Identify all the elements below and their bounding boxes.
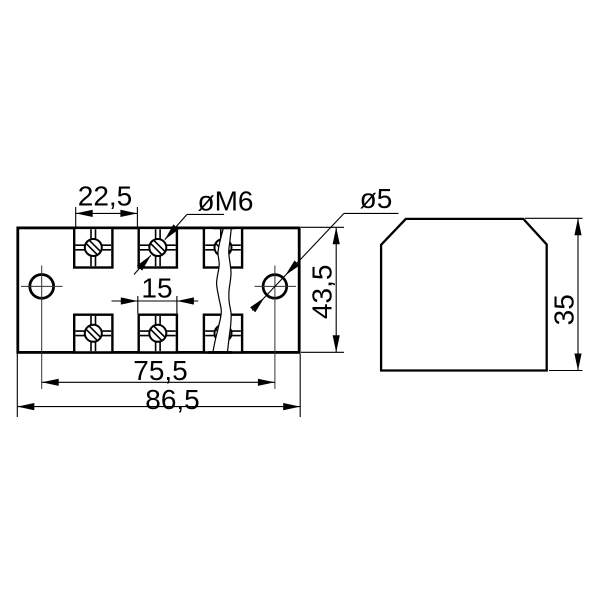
dimension 15 label [141,272,172,303]
left hole centerlines [21,266,63,390]
dimension 43,5 extension lines [301,227,344,352]
dimension 35 line and arrows [574,218,581,370]
break line right [227,229,231,353]
terminal screw A2 (bottom row) [74,315,112,353]
svg-text:43,5: 43,5 [306,265,337,320]
dimension 15 line and arrows [112,297,199,304]
side view outline [381,219,547,371]
dimension 22,5 line and arrows [76,210,138,217]
svg-text:ø5: ø5 [360,183,393,214]
front view body outline [18,228,299,353]
dimension 22,5 extension lines [76,207,138,227]
terminal screw C1 (top row) [204,228,242,268]
right mounting hole [263,275,287,299]
terminal screw C2 (bottom row) [204,315,242,353]
dimension 15 extension lines [138,296,177,313]
dimension 86,5 label [145,384,200,415]
body top edge over band [213,226,235,229]
dimension 22,5 label [78,180,133,211]
terminal screw B1 (top row) [139,228,177,268]
body bottom edge over band [208,351,232,354]
left mounting hole [30,275,54,299]
svg-text:22,5: 22,5 [78,180,133,211]
dimension 75,5 label [133,355,188,386]
leader line ø5 [250,213,398,312]
break-out band (white mask between break lines) [213,229,232,353]
svg-text:75,5: 75,5 [133,355,188,386]
dimension 86,5 line and arrows [17,403,300,410]
dimension 43,5 line and arrows [333,227,340,352]
svg-text:15: 15 [141,272,172,303]
label ø5 [360,183,393,214]
svg-text:86,5: 86,5 [145,384,200,415]
terminal screw B2 (bottom row) [139,315,177,353]
svg-text:øM6: øM6 [198,185,254,216]
terminal screw A1 (top row) [74,228,112,268]
dimension 75,5 line and arrows [42,379,275,386]
svg-text:35: 35 [549,294,580,325]
right hole centerlines [255,266,297,390]
leader line øM6 [134,214,224,274]
dimension 86,5 extension lines [17,354,300,417]
break line left [213,229,224,353]
dimension 43,5 label [306,265,337,320]
dimension 35 extension lines [525,218,583,370]
dimension 35 label [549,294,580,325]
label øM6 [198,185,254,216]
